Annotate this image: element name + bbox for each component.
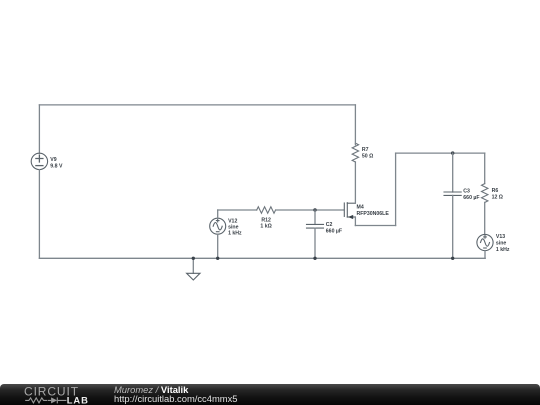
ground xyxy=(187,258,200,280)
wire V12 top lead xyxy=(217,210,219,218)
wire V12 bottom lead xyxy=(217,234,219,258)
footer bar xyxy=(0,384,540,405)
svg-text:660 µF: 660 µF xyxy=(463,195,479,201)
wire M4 source down xyxy=(354,217,356,226)
wire R12 to gate xyxy=(276,209,344,211)
wire right riser xyxy=(395,153,397,225)
wire source to right riser xyxy=(355,225,395,227)
voltage source V9 xyxy=(31,153,47,169)
svg-text:660 µF: 660 µF xyxy=(326,228,342,234)
wire V12 to R12 xyxy=(218,209,257,211)
resistor R7 xyxy=(352,143,358,162)
wire output rail xyxy=(396,152,485,154)
capacitor C2 xyxy=(307,210,324,258)
svg-text:12 Ω: 12 Ω xyxy=(492,194,503,200)
svg-text:sine: sine xyxy=(496,241,506,247)
CircuitLab logo xyxy=(0,384,100,405)
wire left vertical (V9 top lead) xyxy=(38,105,40,153)
wire R6 top lead xyxy=(484,153,486,184)
svg-text:C2: C2 xyxy=(326,222,333,228)
svg-text:9.8 V: 9.8 V xyxy=(50,163,63,169)
svg-text:R7: R7 xyxy=(362,147,369,153)
wire M4 drain up xyxy=(354,162,356,203)
capacitor C3 xyxy=(444,153,461,258)
svg-text:R12: R12 xyxy=(261,217,271,223)
svg-text:sine: sine xyxy=(228,225,238,231)
node junction dot V12 bottom xyxy=(216,257,219,260)
svg-text:R6: R6 xyxy=(492,188,499,194)
svg-text:V13: V13 xyxy=(496,234,505,240)
wire R7 top to rail xyxy=(354,105,356,145)
resistor R6 xyxy=(482,184,488,203)
wire V13 bottom lead xyxy=(484,251,486,259)
node junction dot C3 top xyxy=(451,151,454,154)
svg-text:M4: M4 xyxy=(357,205,364,211)
svg-text:1 kΩ: 1 kΩ xyxy=(260,224,271,230)
svg-text:1 kHz: 1 kHz xyxy=(228,231,242,237)
svg-text:C3: C3 xyxy=(463,189,470,195)
resistor R12 xyxy=(257,207,276,213)
wire R6 to V13 xyxy=(484,202,486,234)
node junction dot C2 top xyxy=(313,208,316,211)
svg-text:RFP30N06LE: RFP30N06LE xyxy=(357,211,390,217)
node junction dot C3 bottom xyxy=(451,257,454,260)
wire V9 bottom lead xyxy=(38,170,40,259)
transistor M4 xyxy=(344,203,355,219)
node junction dot C2 bottom xyxy=(313,257,316,260)
wire top rail xyxy=(39,104,355,106)
voltage source V13 xyxy=(477,234,493,250)
node junction dot ground xyxy=(192,257,195,260)
svg-text:V9: V9 xyxy=(50,157,56,163)
svg-text:50 Ω: 50 Ω xyxy=(362,153,373,159)
svg-text:1 kHz: 1 kHz xyxy=(496,247,510,253)
wire bottom rail xyxy=(39,257,485,259)
voltage source V12 xyxy=(210,218,226,234)
svg-text:LAB: LAB xyxy=(67,395,89,405)
svg-text:V12: V12 xyxy=(228,218,237,224)
